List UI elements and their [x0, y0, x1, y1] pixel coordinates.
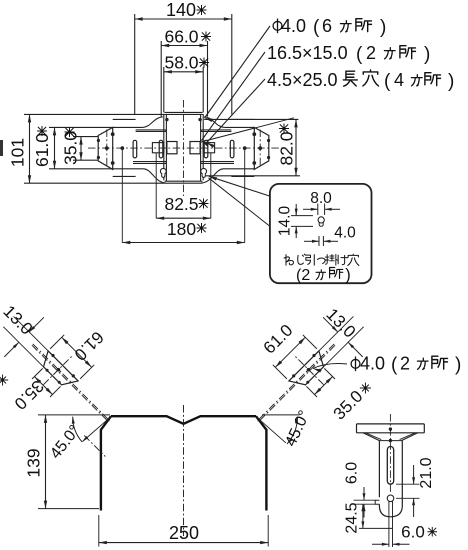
svg-text:(: (	[356, 44, 363, 65]
svg-text:2: 2	[366, 43, 376, 63]
svg-text:2: 2	[400, 354, 410, 374]
svg-text:4.0: 4.0	[334, 225, 356, 242]
svg-text:(: (	[313, 17, 320, 38]
svg-text:82.0: 82.0	[277, 131, 297, 165]
svg-text:101: 101	[8, 138, 28, 167]
svg-text:250: 250	[169, 523, 199, 543]
svg-text:139: 139	[24, 448, 44, 477]
svg-text:(2: (2	[296, 267, 310, 284]
svg-text:24.5: 24.5	[344, 502, 361, 533]
svg-text:4.0: 4.0	[281, 16, 306, 36]
svg-text:): )	[448, 71, 454, 92]
svg-text:16.5×15.0: 16.5×15.0	[267, 43, 348, 63]
svg-text:82.5: 82.5	[164, 194, 198, 214]
svg-text:66.0: 66.0	[164, 27, 198, 47]
svg-text:): )	[424, 44, 430, 65]
svg-text:): )	[455, 355, 461, 376]
svg-text:4.5×25.0: 4.5×25.0	[267, 70, 338, 90]
svg-text:(: (	[384, 71, 391, 92]
svg-text:21.0: 21.0	[418, 457, 435, 488]
svg-text:6: 6	[322, 16, 332, 36]
svg-text:4: 4	[394, 70, 404, 90]
svg-text:58.0: 58.0	[164, 53, 198, 73]
svg-text:35.0: 35.0	[61, 131, 81, 165]
svg-text:8.0: 8.0	[310, 190, 332, 207]
svg-text:14.0: 14.0	[277, 206, 294, 237]
svg-text:6.0: 6.0	[401, 523, 425, 542]
svg-text:4.0: 4.0	[360, 354, 385, 374]
svg-text:6.0: 6.0	[344, 462, 361, 484]
svg-text:180: 180	[167, 219, 196, 239]
svg-text:(: (	[391, 355, 398, 376]
svg-text:61.0: 61.0	[32, 133, 52, 167]
svg-text:): )	[345, 266, 351, 284]
svg-text:): )	[380, 17, 386, 38]
svg-text:140: 140	[166, 0, 196, 20]
